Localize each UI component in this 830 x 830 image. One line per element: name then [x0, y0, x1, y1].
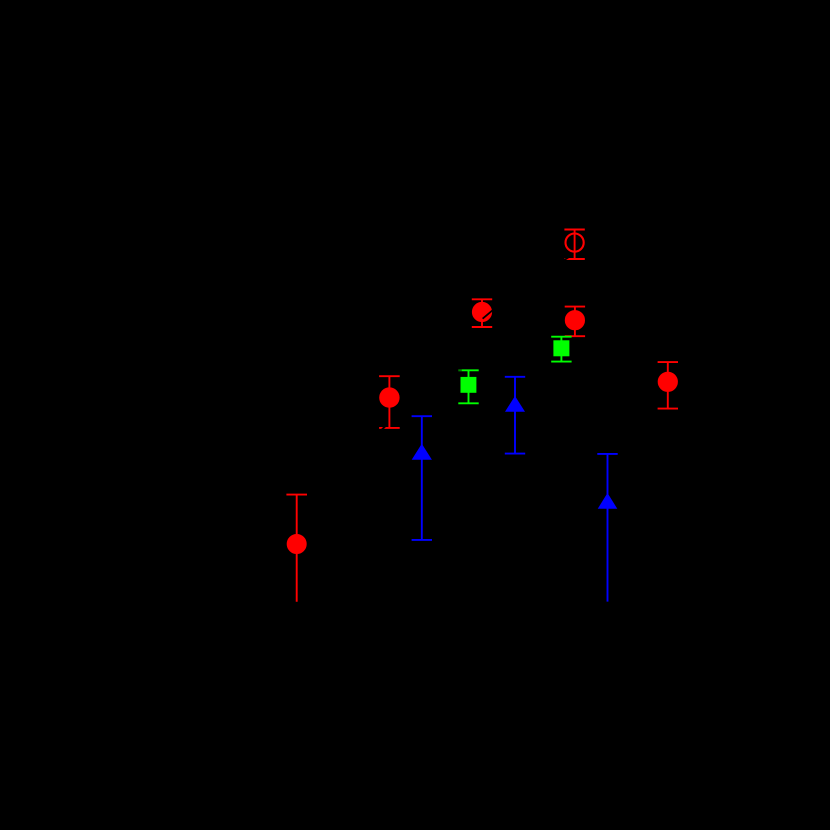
data point I: blue triangle with error bars	[412, 416, 432, 540]
data point J: red circle with error bar (clipped bottom)	[286, 495, 307, 602]
data point K: blue triangle with error bar (clipped bottom)	[597, 454, 617, 602]
data point G: red circle with error bars	[379, 376, 400, 428]
data point E: green square with error bars	[458, 370, 478, 403]
data point F: red circle with error bars	[658, 362, 678, 409]
black fit-line notch crossing G bottom cap	[382, 426, 385, 429]
black fit-line dimming left part of E top cap	[458, 369, 462, 371]
data point B: red circle with error bars	[472, 299, 492, 327]
data point H: blue triangle with error bars	[505, 377, 525, 454]
data point A: red open circle with error bars	[564, 230, 584, 260]
black fit-line notch crossing A bottom cap	[563, 257, 569, 261]
data point C: red circle with error bars	[565, 307, 585, 337]
black fit-line slash crossing B circle	[483, 309, 494, 318]
data point D: green square with error bars (cap overlaps C cap)	[551, 337, 571, 362]
